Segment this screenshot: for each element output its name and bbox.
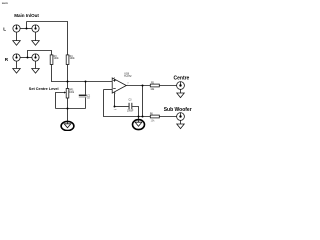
ground under R1 — [13, 61, 21, 73]
wire V- to C3 — [115, 106, 129, 108]
wire output junction down to sub line — [142, 86, 144, 117]
svg-text:sum: sum — [2, 1, 8, 5]
svg-text:Set Centre Level: Set Centre Level — [29, 87, 59, 91]
wire R4 bottom through node to VR1 top — [67, 65, 69, 89]
capacitor C1 — [79, 95, 91, 100]
ground under Centre connector — [177, 89, 185, 97]
resistor R6 — [150, 114, 159, 123]
junction R row — [27, 57, 29, 59]
svg-text:Centre: Centre — [174, 76, 190, 82]
wire L junction up — [26, 22, 28, 29]
connector Centre out — [177, 82, 185, 90]
svg-text:TL072: TL072 — [124, 74, 132, 78]
junction output/R5 — [142, 85, 144, 87]
connector L2 — [32, 25, 39, 32]
svg-text:100k: 100k — [54, 58, 60, 60]
earth ellipse left — [61, 121, 74, 130]
op-amp U1B — [112, 71, 132, 111]
svg-text:100uF: 100uF — [127, 111, 134, 113]
wire feedback down and along bottom to R6 — [104, 90, 151, 117]
wire ground stem left — [67, 109, 69, 122]
svg-text:Sub Woofer: Sub Woofer — [164, 107, 192, 113]
junction L row — [26, 28, 28, 30]
connector R1 — [13, 54, 20, 61]
svg-text:100k: 100k — [69, 92, 75, 94]
ground under R2 — [32, 61, 40, 73]
connector R2 — [32, 54, 39, 61]
wire op-amp output — [126, 85, 150, 87]
wire top horizontal to R4 — [27, 22, 68, 55]
earth ellipse right — [133, 120, 145, 130]
svg-text:L: L — [3, 27, 6, 32]
wire R5 to Centre connector — [159, 85, 176, 87]
wire R junction up and over to R3 — [28, 51, 52, 58]
junction V-/C3 — [114, 106, 116, 108]
svg-text:Main In/Out: Main In/Out — [14, 13, 39, 18]
wire C3 right to ground ellipse — [132, 107, 138, 121]
junction node/C1 — [85, 81, 87, 83]
connector Sub out — [177, 113, 185, 121]
resistor R5 — [150, 82, 159, 91]
ground under Sub connector — [177, 120, 185, 128]
wire R6 to Sub connector — [159, 116, 176, 118]
svg-text:100k: 100k — [70, 58, 76, 60]
junction C3 leg/sub line — [138, 116, 140, 118]
wire C1 bottom lead — [85, 98, 87, 109]
wire bottom rail — [56, 108, 86, 110]
ground under L2 — [32, 32, 40, 45]
potentiometer VR1 — [64, 89, 75, 99]
wire VR1 bottom lead — [67, 98, 69, 109]
wire L row between connectors — [20, 28, 32, 30]
wire VR1 wiper to bottom rail — [56, 93, 65, 109]
connector L1 — [13, 25, 20, 32]
capacitor C3 — [127, 100, 134, 113]
junction bottom rail — [67, 108, 69, 110]
resistor R3 — [50, 55, 59, 65]
junction feedback/sub line — [142, 116, 144, 118]
ground under L1 — [13, 32, 21, 45]
wire R row between connectors — [20, 57, 32, 59]
junction node/VR1 — [67, 81, 69, 83]
wire op-amp inverting input — [104, 89, 113, 91]
wire R3 bottom to summing node and op-amp +input — [52, 65, 113, 82]
wire C1 top lead — [85, 82, 87, 95]
wire op-amp V- stub — [114, 92, 116, 107]
resistor R4 — [66, 55, 75, 65]
